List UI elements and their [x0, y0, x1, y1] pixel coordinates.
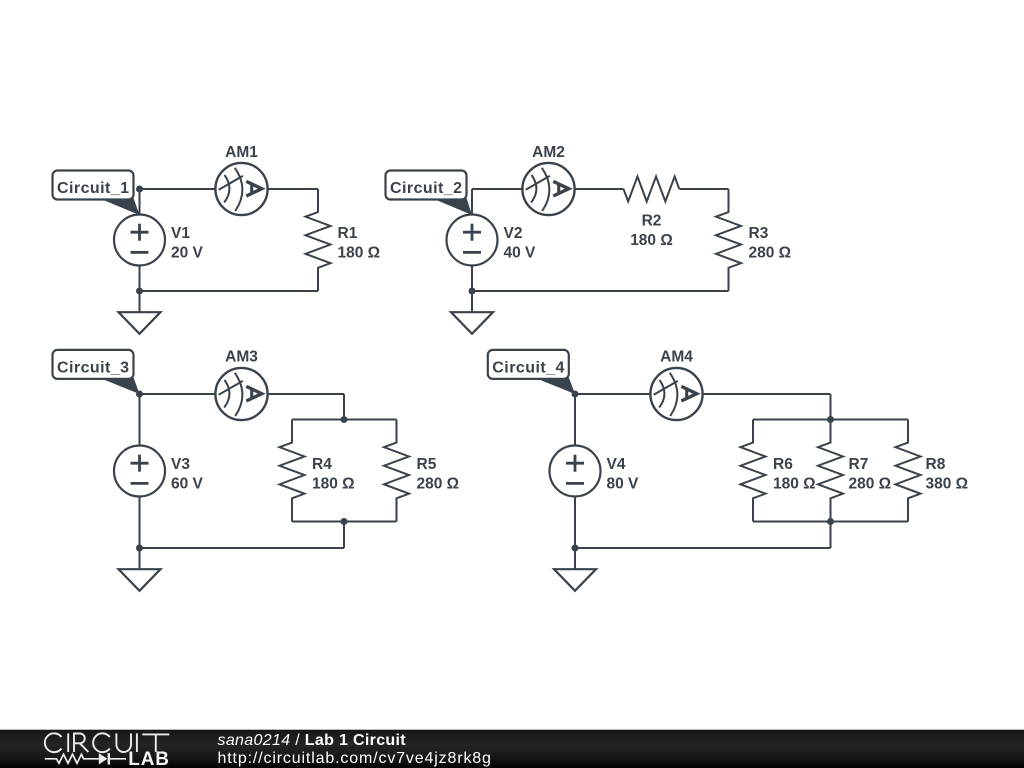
svg-text:40 V: 40 V: [504, 245, 537, 262]
svg-text:R5: R5: [417, 456, 437, 473]
svg-text:V3: V3: [171, 456, 190, 473]
svg-text:Circuit_1: Circuit_1: [57, 180, 130, 197]
svg-text:Circuit_2: Circuit_2: [390, 180, 463, 197]
svg-text:V4: V4: [607, 456, 626, 473]
svg-text:380 Ω: 380 Ω: [926, 476, 969, 493]
svg-text:AM4: AM4: [660, 349, 693, 366]
svg-text:280 Ω: 280 Ω: [749, 245, 792, 262]
svg-text:R8: R8: [926, 456, 946, 473]
svg-text:180 Ω: 180 Ω: [630, 232, 673, 249]
svg-text:R1: R1: [338, 225, 358, 242]
svg-text:R7: R7: [849, 456, 869, 473]
svg-text:80 V: 80 V: [607, 476, 640, 493]
svg-text:V2: V2: [504, 225, 523, 242]
svg-text:60 V: 60 V: [171, 476, 204, 493]
svg-text:180 Ω: 180 Ω: [338, 245, 381, 262]
svg-text:180 Ω: 180 Ω: [773, 476, 816, 493]
svg-text:V1: V1: [171, 225, 190, 242]
svg-text:R4: R4: [312, 456, 332, 473]
svg-text:280 Ω: 280 Ω: [849, 476, 892, 493]
svg-text:R2: R2: [642, 213, 662, 230]
svg-text:http://circuitlab.com/cv7ve4jz: http://circuitlab.com/cv7ve4jz8rk8g: [218, 750, 492, 767]
svg-text:LAB: LAB: [128, 749, 169, 768]
svg-text:AM3: AM3: [225, 349, 258, 366]
svg-text:R3: R3: [749, 225, 769, 242]
svg-text:20 V: 20 V: [171, 245, 204, 262]
svg-text:280 Ω: 280 Ω: [417, 476, 460, 493]
svg-text:Circuit_3: Circuit_3: [57, 359, 130, 376]
svg-text:180 Ω: 180 Ω: [312, 476, 355, 493]
svg-text:Circuit_4: Circuit_4: [492, 359, 565, 376]
svg-text:AM1: AM1: [225, 144, 258, 161]
svg-text:R6: R6: [773, 456, 793, 473]
svg-text:sana0214 / Lab 1 Circuit: sana0214 / Lab 1 Circuit: [218, 732, 407, 749]
svg-text:AM2: AM2: [532, 144, 565, 161]
